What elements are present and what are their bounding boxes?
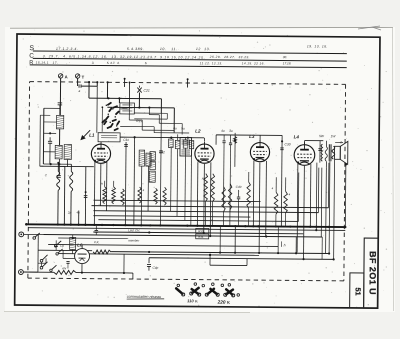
- wire L6 grid side: [62, 250, 64, 258]
- tube L6 rectifier: [74, 249, 89, 264]
- grid bus wire y136: [120, 136, 204, 139]
- svg-text:commutatien réseau: commutatien réseau: [127, 295, 162, 299]
- wire line y252.5: [58, 254, 259, 256]
- wire osc bus y106.5: [107, 106, 174, 109]
- wire y97.5 drops: [88, 86, 90, 98]
- wire y237 short: [58, 237, 128, 240]
- node on chassis line 1: [88, 81, 90, 83]
- svg-text:member: member: [128, 238, 140, 242]
- chassis dashed boundary: [28, 82, 346, 281]
- resistor R22: [121, 189, 125, 205]
- resistor R25: [163, 187, 167, 205]
- wire L6 bottom: [81, 264, 83, 273]
- band switch frame box: [120, 103, 135, 114]
- bus junction dots: [57, 223, 59, 225]
- wire L2 pins down: [196, 162, 199, 226]
- resistor R28: [222, 187, 226, 212]
- mains terminal upper: [19, 232, 24, 237]
- svg-text:4u: 4u: [221, 129, 225, 133]
- svg-text:L4: L4: [294, 134, 300, 139]
- coil stack mid: [150, 152, 156, 161]
- capacitor C13: [48, 140, 52, 142]
- wire x237 below bus: [234, 226, 236, 253]
- svg-text:10. 11.: 10. 11.: [160, 47, 178, 51]
- svg-text:15,14,1 17.: 15,14,1 17.: [36, 61, 58, 65]
- svg-text:17.1.2.3.4.: 17.1.2.3.4.: [56, 47, 79, 51]
- filter choke coil 3000: [57, 171, 60, 190]
- antenna terminal A: [58, 74, 62, 78]
- tube L2: [195, 144, 214, 163]
- svg-text:R: R: [202, 177, 204, 181]
- wire hline y219: [98, 220, 298, 222]
- wire T down: [77, 78, 79, 86]
- svg-text:a: a: [78, 89, 80, 93]
- cap pair x231: [229, 142, 232, 144]
- coil stack mid lower: [149, 171, 155, 182]
- capacitor Cp: [54, 243, 58, 245]
- output transformer primary: [321, 144, 322, 161]
- speaker top wire: [335, 142, 343, 144]
- resistor PK: [93, 250, 111, 254]
- page right corner mark: [358, 26, 381, 30]
- speaker bottom node: [344, 164, 347, 228]
- tube L3: [250, 142, 269, 161]
- resistor R32: [284, 191, 288, 213]
- svg-text:12 13.: 12 13.: [196, 47, 211, 51]
- second staircase wire: [148, 108, 150, 115]
- wire x97.7 down to coil box: [96, 86, 98, 132]
- resistor R26 right: [204, 174, 208, 202]
- wire mid coil connects: [58, 159, 60, 175]
- resistor R23: [138, 187, 142, 203]
- capacitor across output: [319, 141, 321, 163]
- cap 6u body: [169, 139, 174, 148]
- cap pair x225: [222, 140, 225, 142]
- node on chassis line 3: [106, 81, 108, 83]
- wire node 3 drop: [106, 82, 108, 98]
- tube L4: [294, 145, 315, 166]
- resistor box R34: [196, 234, 209, 239]
- wire line y263.5: [210, 264, 247, 266]
- wire antenna A down: [59, 78, 61, 115]
- svg-text:Cp: Cp: [60, 244, 64, 248]
- wire AN left: [23, 271, 54, 273]
- svg-text:5u: 5u: [181, 126, 185, 130]
- svg-text:C40: C40: [236, 185, 242, 189]
- main HT bus thick: [26, 224, 345, 227]
- wire x222 drop below bus: [219, 226, 221, 253]
- outer frame border: [15, 34, 380, 308]
- svg-text:AN: AN: [61, 266, 67, 270]
- wire x103 down: [101, 107, 103, 131]
- resistor R hatched pair A: [139, 150, 145, 166]
- wire T-drop x125: [124, 78, 126, 86]
- wire line y250: [38, 249, 92, 251]
- svg-text:L3: L3: [249, 134, 255, 139]
- wire line y244: [48, 244, 278, 246]
- page right edge line: [393, 28, 394, 311]
- resistor AN: [54, 270, 76, 274]
- tube L1: [91, 144, 110, 163]
- wire a to node: [82, 85, 89, 87]
- coil can above L1: [98, 133, 120, 142]
- svg-text:11.12. 12.13.: 11.12. 12.13.: [200, 61, 223, 65]
- svg-text:220 v.: 220 v.: [217, 300, 231, 305]
- wire tie coil1: [44, 121, 57, 123]
- svg-text:BF 2O1 U: BF 2O1 U: [368, 251, 378, 295]
- wire x120 box drop: [118, 98, 120, 102]
- scan speckle noise: [14, 30, 391, 308]
- speaker: [334, 146, 340, 159]
- wire grid bus y97.5: [89, 97, 161, 100]
- wire terminal to switch: [24, 233, 44, 235]
- svg-text:19. 13. 18.: 19. 13. 18.: [307, 44, 328, 48]
- wire vertical C31: [124, 142, 127, 226]
- svg-text:A: A: [65, 74, 68, 79]
- node on chassis line 2: [96, 81, 98, 83]
- wire x80 short: [78, 211, 80, 225]
- svg-text:5.4.389.: 5.4.389.: [127, 47, 144, 51]
- svg-text:L1: L1: [89, 133, 95, 138]
- svg-text:Leu! CH.: Leu! CH.: [128, 228, 140, 232]
- svg-text:h: h: [284, 243, 286, 247]
- oscillator coil S3: [64, 144, 71, 159]
- wire hline y215: [93, 216, 250, 217]
- node C21 bus: [138, 106, 140, 108]
- capacitor near L6 base: [66, 261, 69, 263]
- svg-text:110 v.: 110 v.: [187, 298, 198, 303]
- resistor R31: [274, 192, 278, 214]
- svg-text:2p: 2p: [67, 210, 72, 214]
- wire x126 up: [123, 254, 125, 273]
- mains on-off switch: [33, 237, 36, 240]
- capacitor C top-left: [58, 102, 62, 104]
- svg-text:5. 4.7. 4.: 5. 4.7. 4.: [107, 61, 120, 65]
- svg-text:C4p: C4p: [152, 266, 158, 270]
- mains terminal lower: [19, 270, 24, 275]
- output transformer secondary: [332, 146, 335, 159]
- resistor R24: [154, 188, 158, 204]
- resistor R30: [247, 182, 251, 208]
- wire choke A bottom: [57, 190, 59, 224]
- wire C21 down: [138, 93, 140, 108]
- wire hline y166: [40, 165, 94, 167]
- resistor R27: [211, 174, 215, 202]
- right side verticals to lower lines: [315, 163, 318, 230]
- svg-text:6.: 6.: [145, 61, 148, 65]
- voltage selector upper dots: [177, 284, 180, 287]
- resistor R21: [112, 187, 116, 204]
- svg-text:6u: 6u: [173, 126, 177, 130]
- svg-text:C30: C30: [285, 142, 291, 146]
- wire lower terminal: [23, 271, 38, 273]
- svg-text:P.K.: P.K.: [94, 240, 99, 244]
- capacitor on x162: [159, 113, 162, 226]
- switch contacts left: [40, 259, 43, 262]
- wire vertical x135: [133, 137, 136, 226]
- wire hline y205: [92, 206, 329, 208]
- svg-text:R34: R34: [198, 235, 204, 239]
- svg-text:17.18.: 17.18.: [283, 61, 292, 65]
- voltage selector levers: [174, 287, 184, 296]
- wire line y199.5: [94, 200, 261, 201]
- tuning arrow: [81, 130, 90, 140]
- page top edge crease: [10, 26, 393, 29]
- wire node right: [89, 85, 97, 87]
- wire L1 pins down: [93, 162, 96, 226]
- wire right step from y106.5: [173, 108, 175, 132]
- bus left end node: [25, 223, 28, 226]
- wire choke B bottom: [70, 191, 72, 224]
- wire L3 pins: [252, 161, 255, 227]
- svg-text:51: 51: [354, 287, 363, 295]
- staircase wire upper mid: [120, 108, 129, 110]
- wire switch cluster links: [38, 262, 46, 264]
- coupling line C30: [280, 141, 283, 227]
- node left col: [49, 132, 51, 134]
- output transformer core: [328, 144, 330, 161]
- wire heater line y234: [43, 235, 322, 237]
- svg-text:30.: 30.: [283, 55, 287, 59]
- capacitor C16 under bus: [94, 229, 98, 231]
- capacitor a: [78, 84, 80, 87]
- wire hline y210: [93, 211, 318, 213]
- svg-text:C31: C31: [123, 138, 129, 142]
- capacitor C4p: [148, 258, 150, 263]
- wire coil1 down: [59, 129, 61, 145]
- capacitor mid-left with node: [84, 167, 87, 225]
- svg-text:4u: 4u: [76, 211, 80, 215]
- wire L4 anode up: [304, 141, 306, 145]
- wire heater line y231: [93, 232, 303, 234]
- electrolytic C33 coil: [325, 147, 327, 161]
- antenna coil S1: [56, 115, 63, 129]
- wire L2 top to anode loop: [204, 138, 206, 141]
- cap fourth body: [189, 141, 193, 149]
- cap third body: [183, 140, 188, 148]
- terminal T: [75, 74, 79, 78]
- title block sheet-number box: [350, 273, 364, 308]
- header row C underline: [33, 58, 347, 61]
- small resistor on x236: [234, 133, 236, 167]
- capacitor C16: [57, 174, 61, 176]
- band switch contact dots: [106, 105, 108, 107]
- bus lower companion wire: [28, 228, 345, 231]
- wire line y256.5: [149, 258, 334, 260]
- resistor R29: [228, 184, 232, 210]
- svg-text:R19: R19: [136, 119, 142, 123]
- wire choke A top: [57, 163, 59, 171]
- fuse coil: [70, 237, 76, 249]
- resistor R20: [103, 187, 107, 204]
- antenna coil S2: [55, 145, 62, 159]
- trimmer capacitor C21: [137, 88, 141, 93]
- wire L6 top: [81, 245, 83, 249]
- svg-text:26.28. 28.27. 33.29.: 26.28. 28.27. 33.29.: [209, 55, 250, 59]
- wire x66 long: [63, 166, 66, 224]
- svg-text:R: R: [101, 182, 103, 186]
- svg-text:14.15. 22 16.: 14.15. 22 16.: [242, 61, 265, 65]
- page bottom edge: [4, 312, 250, 313]
- wire switch right steps: [134, 112, 167, 114]
- header row R underline: [30, 65, 347, 68]
- wire top loop L3: [216, 134, 282, 137]
- small switch mid: [50, 269, 52, 271]
- band switch contact blobs: [101, 102, 120, 132]
- title block BF 201 U box: [364, 238, 379, 308]
- wire choke B top: [70, 164, 72, 171]
- wire x130 from chassis line: [128, 82, 130, 108]
- wire x135 down to chassis: [132, 273, 134, 279]
- wire T-drop x188: [187, 79, 189, 87]
- capacitor C31: [124, 144, 128, 146]
- svg-text:C21: C21: [143, 89, 149, 93]
- wire coils bottom join: [43, 163, 71, 165]
- wire line y250 right part: [111, 252, 329, 254]
- wire outer left vertical: [39, 115, 41, 166]
- wire tie coil2: [43, 151, 55, 153]
- cap 5u body: [175, 140, 180, 148]
- svg-text:L2: L2: [195, 129, 201, 134]
- filter choke coil 2000: [70, 171, 73, 191]
- svg-text:3u: 3u: [229, 129, 233, 133]
- band switch inner lines: [122, 104, 132, 106]
- wire left long vertical: [42, 108, 44, 164]
- resistor box R33: [196, 228, 209, 233]
- switch wire pair upper: [54, 245, 56, 247]
- svg-text:3.: 3.: [92, 61, 95, 65]
- header row S underline: [33, 51, 347, 54]
- resistor R hatched pair B: [146, 153, 151, 166]
- wire AN right to L6: [76, 272, 133, 274]
- wire L4 pins: [296, 164, 299, 252]
- IF transformer T1: [180, 137, 192, 156]
